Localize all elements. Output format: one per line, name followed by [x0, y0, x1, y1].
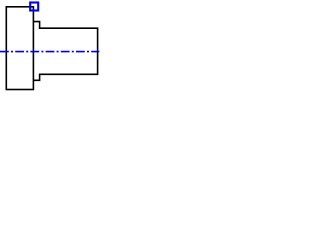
background [0, 0, 100, 100]
grip square (blue) [30, 3, 38, 11]
centerline (blue dash-dot) [0, 51, 99, 53]
left flange rectangle outline [6, 7, 33, 90]
stepped boss profile [33, 22, 97, 81]
